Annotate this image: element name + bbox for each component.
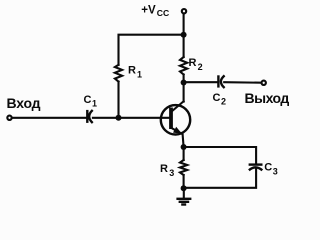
label R2 [189, 57, 203, 72]
svg-text:3: 3 [273, 167, 278, 177]
resistor R1 [115, 65, 122, 82]
svg-text:R: R [189, 57, 197, 69]
svg-text:1: 1 [92, 99, 97, 109]
svg-text:C: C [264, 162, 272, 174]
wire Vcc to top node [183, 14, 185, 35]
wire ground stub [183, 188, 185, 197]
svg-text:C: C [84, 94, 92, 106]
svg-text:+V: +V [141, 4, 156, 16]
wire C1 to base [93, 117, 169, 119]
wire collector rail [183, 83, 185, 102]
wire R3 to ground node [183, 175, 185, 188]
wire R2 to collector node [183, 75, 185, 83]
ground [176, 199, 191, 205]
node collector junction [181, 80, 187, 86]
wire input to C1 [12, 117, 86, 119]
wire emitter to C3 branch [184, 147, 257, 163]
terminal input [7, 116, 11, 120]
node emitter junction [181, 144, 187, 150]
wire collector to C2 [184, 81, 218, 83]
svg-text:C: C [213, 92, 221, 104]
node ground junction [181, 185, 187, 191]
resistor R2 [180, 57, 187, 75]
label C1 [84, 94, 98, 109]
wire R1 to base node [117, 82, 119, 118]
capacitor C3 [249, 165, 263, 171]
wire top node to R2 [183, 35, 185, 57]
wire emitter to R3 [183, 147, 185, 160]
label C3 [264, 162, 278, 177]
capacitor C1 [87, 110, 92, 123]
wire C3 to bottom rail [184, 168, 257, 188]
svg-text:R: R [128, 64, 136, 76]
svg-text:Выход: Выход [245, 90, 290, 106]
wire C2 to output [224, 81, 261, 84]
svg-text:Вход: Вход [7, 95, 41, 111]
svg-text:2: 2 [198, 62, 203, 72]
svg-text:R: R [160, 163, 168, 175]
capacitor C2 [218, 75, 224, 88]
label R1 [128, 64, 142, 79]
transistor Q1 [161, 101, 190, 147]
node base junction [116, 115, 122, 121]
terminal +Vcc [182, 9, 186, 13]
label C2 [213, 92, 227, 107]
terminal output [262, 81, 266, 85]
label R3 [160, 163, 174, 178]
svg-text:1: 1 [137, 70, 142, 80]
svg-text:3: 3 [169, 168, 174, 178]
svg-text:CC: CC [157, 8, 169, 18]
svg-text:2: 2 [221, 97, 226, 107]
node top junction [181, 32, 187, 38]
label +Vcc [141, 4, 169, 17]
resistor R3 [180, 160, 187, 175]
wire top rail to R1 branch [119, 35, 184, 65]
